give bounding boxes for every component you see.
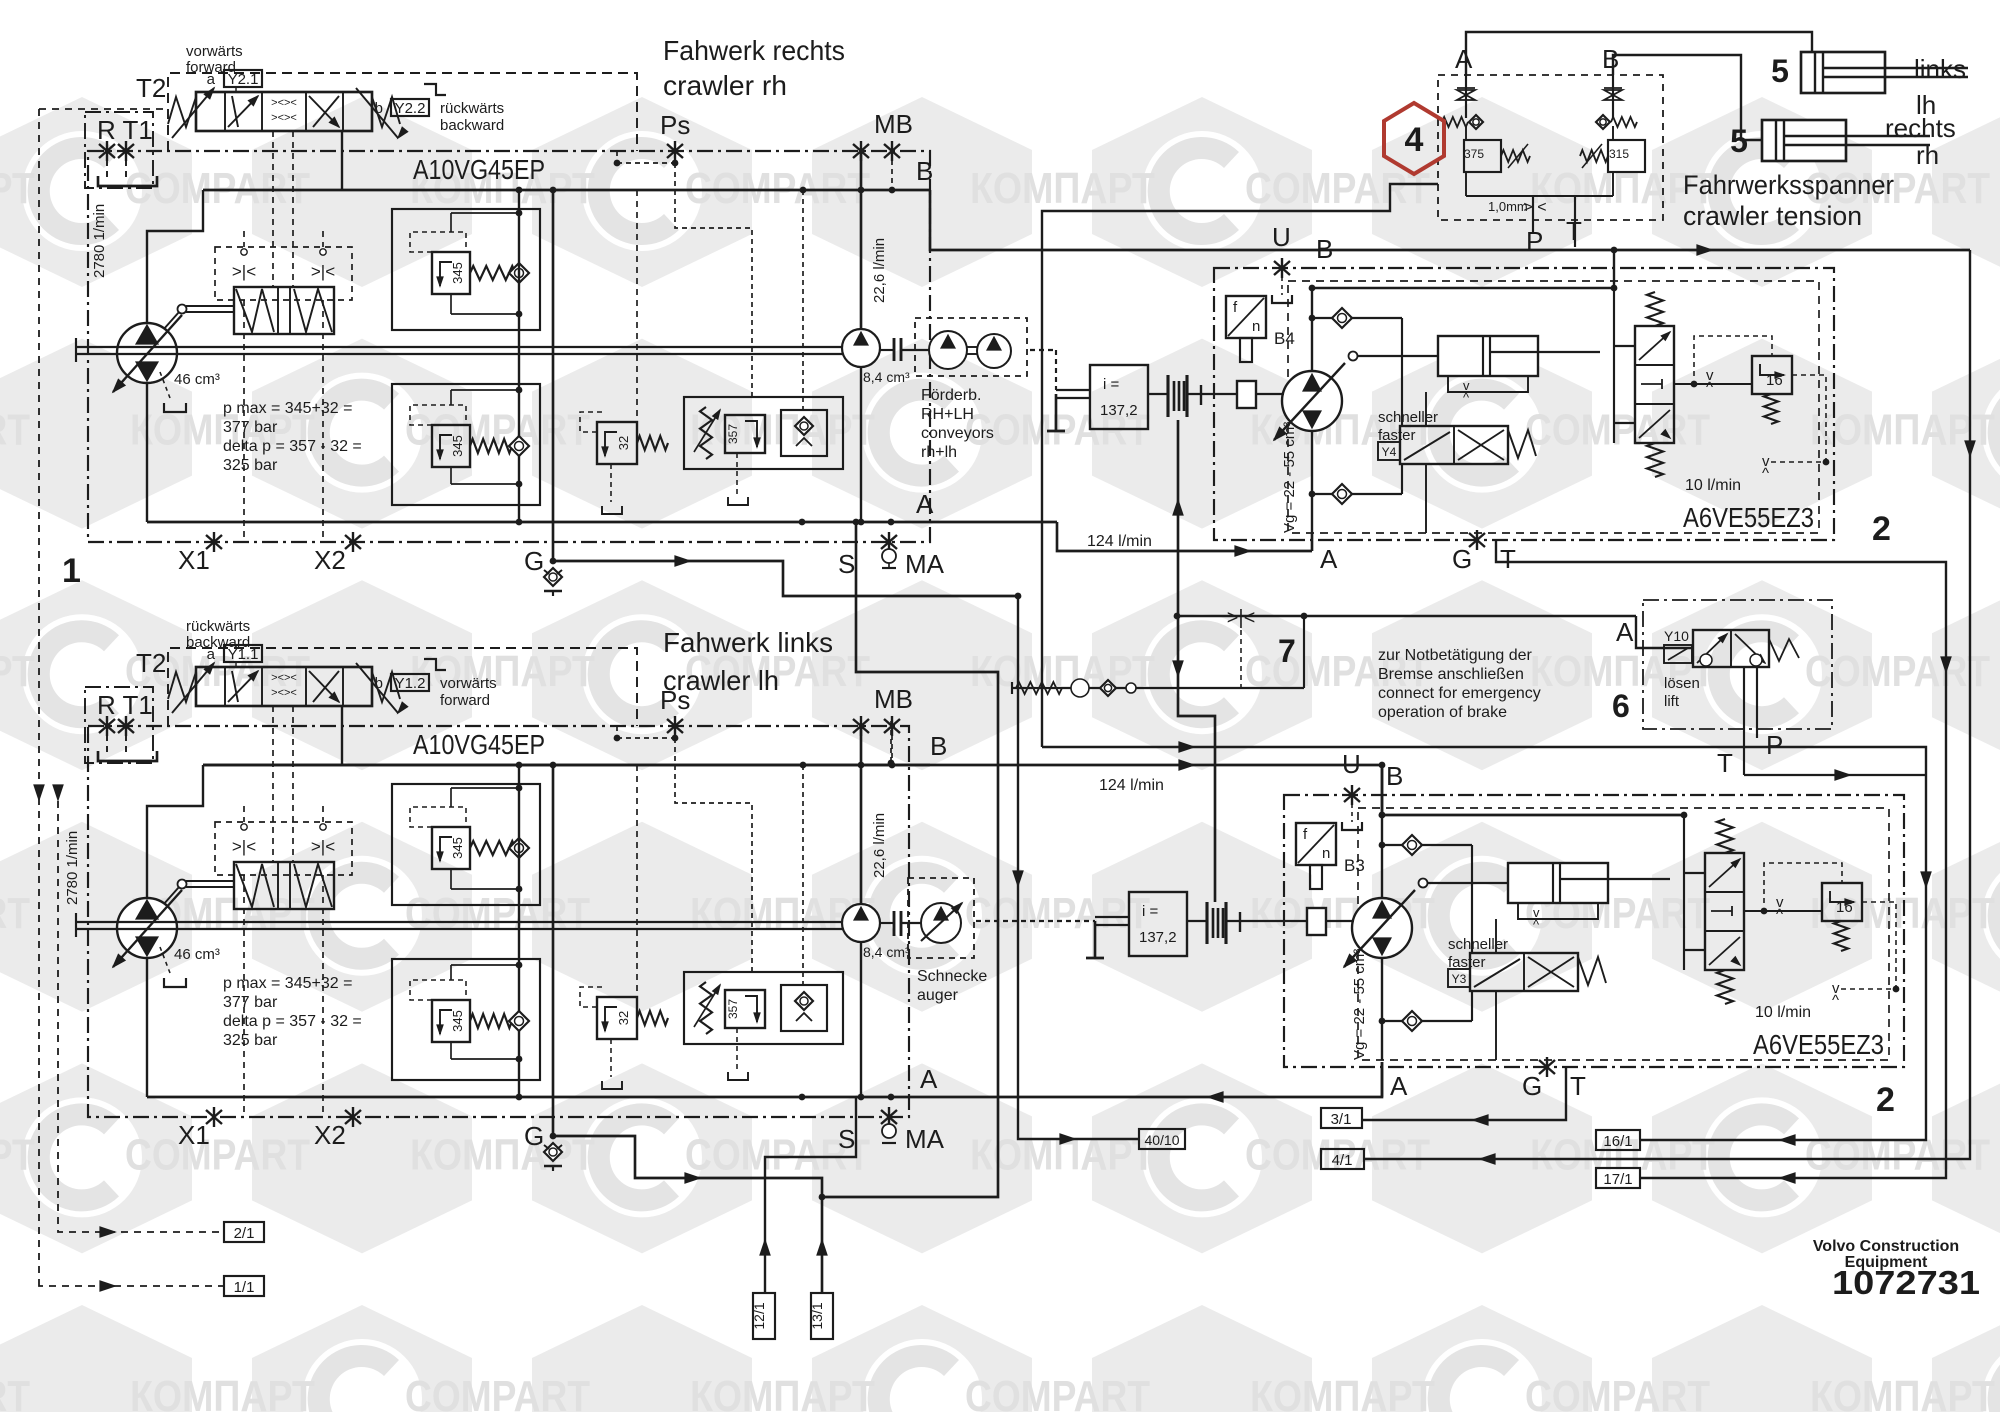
svg-text:137,2: 137,2 <box>1100 402 1138 419</box>
wire A work line <box>147 1096 1057 1099</box>
wire B feed <box>1613 55 1762 140</box>
pressure cutoff 357 block box <box>684 397 843 469</box>
svg-text:rückwärts: rückwärts <box>440 100 504 117</box>
wire charge pump to B <box>860 151 863 329</box>
relief 357 cartridge <box>725 415 765 453</box>
svg-text:2/1: 2/1 <box>234 1225 255 1242</box>
svg-text:S: S <box>838 1124 855 1154</box>
connector 12/1 <box>753 1293 775 1339</box>
swash plate link <box>178 880 187 889</box>
spring below 16 <box>1834 921 1848 951</box>
connector 16/1 <box>1596 1130 1640 1150</box>
svg-text:КОМПАРТ: КОМПАРТ <box>130 1372 315 1412</box>
svg-text:COMPART: COMPART <box>0 406 30 455</box>
node pilot b <box>320 824 326 830</box>
wire MB2 dashed drop <box>890 721 892 763</box>
wire branch 375 bottom <box>1465 172 1467 196</box>
svg-text:MB: MB <box>874 684 913 714</box>
stroking cylinder <box>1438 336 1538 376</box>
wire B2 to motor 2 <box>930 765 1382 815</box>
svg-text:КОМПАРТ: КОМПАРТ <box>0 164 35 213</box>
wire motor B port line <box>1311 288 1313 371</box>
boundary A6VE55 motor unit dash-dot box <box>1214 268 1834 540</box>
pilot wire b <box>322 231 324 247</box>
valve Y10 2/2 <box>1693 630 1769 667</box>
wire 16/1 riser <box>1042 747 1926 1140</box>
wire charge pump to B <box>860 726 863 904</box>
spring of relief 345 low <box>470 1014 512 1028</box>
pilot dashed wires from Ps <box>674 726 676 738</box>
pilot dashed X1 X2 wires <box>243 875 245 1117</box>
wire T2 dashed long left <box>38 109 40 1283</box>
check valve lower <box>1312 493 1402 495</box>
wire motor B port line <box>1381 815 1383 898</box>
shutoff valve branch 315 <box>1612 75 1614 118</box>
wire 16 dashed pilots <box>1764 863 1842 903</box>
svg-text:T: T <box>1570 1071 1586 1101</box>
orifice 1,0mm <box>1466 195 1613 197</box>
sensor f/n <box>1296 823 1336 865</box>
svg-text:^: ^ <box>1706 379 1713 396</box>
wire brake pilot line <box>1174 613 1181 620</box>
boundary A10VG45EP unit dash-dot box <box>88 726 909 1117</box>
cylinder crawler right <box>1762 120 1846 161</box>
svg-text:lösen: lösen <box>1664 675 1700 692</box>
boundary pilot module dashed box <box>215 822 352 875</box>
wire motor1 A up <box>1311 533 1314 551</box>
wire branch 315 bottom <box>1612 172 1614 196</box>
drain of relief 32 <box>610 1039 612 1077</box>
wire G2 to 13/1 <box>553 1136 822 1293</box>
svg-text:6: 6 <box>1612 688 1630 724</box>
svg-text:345: 345 <box>450 837 465 859</box>
spring of relief 345 <box>470 266 522 280</box>
svg-text:B: B <box>1316 234 1333 264</box>
wire R/T1 drains to tank bracket <box>106 160 108 178</box>
wire valve to B line <box>341 131 343 190</box>
wire pilot line bottom <box>1496 1036 1896 1038</box>
boundary item 6 dashed box <box>1643 600 1832 729</box>
svg-text:Vg = 22 - 55 cm³: Vg = 22 - 55 cm³ <box>1351 949 1368 1060</box>
svg-text:COMPART: COMPART <box>965 889 1150 938</box>
wire motor2 T to 3/1 <box>1362 1067 1566 1120</box>
svg-text:357: 357 <box>726 999 740 1019</box>
check with spring branch 375 <box>1442 117 1468 127</box>
measuring port T1 <box>125 716 127 736</box>
svg-text:5: 5 <box>1730 123 1748 159</box>
svg-text:COMPART: COMPART <box>125 1130 310 1179</box>
tank hook at valve <box>424 659 446 670</box>
svg-text:lift: lift <box>1664 693 1680 710</box>
pilot dashed box 345 <box>410 807 466 827</box>
svg-text:2780 1/min: 2780 1/min <box>91 204 108 278</box>
shutoff valve branch 375 <box>1465 75 1467 118</box>
svg-text:links: links <box>1914 54 1966 84</box>
drain 357 <box>736 453 738 494</box>
svg-text:1072731: 1072731 <box>1832 1264 1980 1301</box>
pilot wire stroking b <box>292 706 294 862</box>
drive shaft <box>76 346 861 348</box>
svg-text:auger: auger <box>917 987 959 1004</box>
wire 124 l/min riser <box>1178 420 1215 902</box>
wire G line to right <box>553 561 1018 596</box>
svg-text:1/1: 1/1 <box>234 1279 255 1296</box>
svg-text:375: 375 <box>1464 147 1484 161</box>
connector 13/1 <box>811 1293 833 1339</box>
boundary RT1 dash-dot box <box>85 112 153 188</box>
svg-text:COMPART: COMPART <box>405 889 590 938</box>
svg-text:B: B <box>930 731 947 761</box>
svg-text:A: A <box>1390 1071 1408 1101</box>
case drain bracket <box>160 947 170 973</box>
shaft coupling <box>893 338 896 361</box>
svg-text:КОМПАРТ: КОМПАРТ <box>0 647 35 696</box>
svg-text:1,0mm: 1,0mm <box>1488 199 1528 214</box>
svg-text:X1: X1 <box>178 1120 210 1150</box>
relief valve 345 high pressure A-side group box <box>392 209 540 330</box>
svg-text:КОМПАРТ: КОМПАРТ <box>690 1372 875 1412</box>
svg-text:COMPART: COMPART <box>965 1372 1150 1412</box>
wire 32 pilot dashed <box>636 190 638 422</box>
wire Y valve verticals <box>1425 464 1427 533</box>
svg-text:4: 4 <box>1405 121 1424 159</box>
svg-text:2: 2 <box>1876 1081 1895 1119</box>
svg-text:conveyors: conveyors <box>921 425 994 442</box>
solenoid arrow left <box>172 88 214 138</box>
gearbox i = 137,2 <box>1090 365 1148 429</box>
wire 16 dashed pilots <box>1694 336 1772 376</box>
svg-text:i =: i = <box>1103 376 1120 393</box>
wire pilot line bottom <box>1426 509 1826 511</box>
shuttle check box <box>781 410 827 456</box>
spring of relief 32 <box>637 1011 668 1025</box>
spring of relief 345 <box>470 841 522 855</box>
svg-text:12/1: 12/1 <box>751 1302 767 1329</box>
svg-text:345: 345 <box>450 435 465 457</box>
relief valve 345 cartridge <box>432 827 470 869</box>
svg-text:КОМПАРТ: КОМПАРТ <box>1250 1372 1435 1412</box>
svg-text:i =: i = <box>1142 903 1159 920</box>
svg-text:A: A <box>920 1064 938 1094</box>
check with spring branch 315 <box>1596 115 1610 129</box>
svg-text:><><: ><>< <box>271 97 297 109</box>
pilot wire a <box>243 231 245 247</box>
svg-text:КОМПАРТ: КОМПАРТ <box>970 164 1155 213</box>
svg-text:Schnecke: Schnecke <box>917 968 987 985</box>
svg-text:n: n <box>1322 845 1330 862</box>
relief cartridge 375 <box>1464 140 1501 172</box>
spring of relief 345 low <box>470 439 512 453</box>
wire S2 drain to 12/1 <box>765 1097 856 1293</box>
wire P port <box>1532 196 1534 232</box>
svg-text:32: 32 <box>616 1011 631 1025</box>
svg-text:^: ^ <box>1762 465 1769 482</box>
svg-text:>|<: >|< <box>311 262 335 281</box>
pilot wire b <box>322 806 324 822</box>
svg-text:>|<: >|< <box>1227 607 1256 629</box>
svg-text:17/1: 17/1 <box>1603 1171 1632 1188</box>
wire S drain down <box>822 522 998 1197</box>
svg-text:b: b <box>375 675 383 692</box>
spring left of valve <box>168 672 196 702</box>
boundary A10VG45EP unit dash-dot box <box>88 151 930 542</box>
schnecke pump dashed box <box>908 878 974 958</box>
swash link rod <box>1419 879 1428 888</box>
pilot wire a <box>243 806 245 822</box>
boundary pilot valve group dashed box <box>168 73 637 151</box>
solenoid arrow right <box>356 663 398 713</box>
valve stroking cylinder with springs <box>234 862 334 909</box>
wire Y10 P T <box>1743 667 1745 775</box>
relief valve 345 high pressure A-side group box <box>392 784 540 905</box>
port X1 <box>213 532 215 552</box>
svg-text:B: B <box>1602 44 1619 74</box>
node pilot a <box>241 824 247 830</box>
valve stroking cylinder with springs <box>234 287 334 334</box>
svg-text:p max = 345+32 =: p max = 345+32 = <box>223 975 352 992</box>
svg-text:2780 1/min: 2780 1/min <box>64 831 81 905</box>
svg-text:A6VE55EZ3: A6VE55EZ3 <box>1683 502 1814 533</box>
svg-text:schneller: schneller <box>1378 409 1438 426</box>
svg-text:operation of brake: operation of brake <box>1378 704 1507 721</box>
svg-text:22,6 l/min: 22,6 l/min <box>871 238 888 303</box>
svg-text:357: 357 <box>726 424 740 444</box>
relief valve 345 cartridge low <box>432 1000 470 1042</box>
svg-text:faster: faster <box>1448 954 1486 971</box>
pump A10VG45 variable displacement <box>117 323 177 383</box>
svg-text:10 l/min: 10 l/min <box>1755 1004 1811 1021</box>
svg-text:Y4: Y4 <box>1382 445 1397 459</box>
wire pilot valve feed <box>1683 815 1685 970</box>
swash link rod <box>1349 352 1358 361</box>
wire tension supply from 16/1 riser <box>1042 184 1438 747</box>
svg-text:B: B <box>1386 761 1403 791</box>
spring right of valve <box>372 97 400 127</box>
wire 2/1 dashed <box>58 788 224 1232</box>
spring below pilot valve <box>1647 443 1663 477</box>
svg-text:7: 7 <box>1278 633 1296 669</box>
svg-text:COMPART: COMPART <box>1525 406 1710 455</box>
svg-text:COMPART: COMPART <box>1805 1130 1990 1179</box>
solenoid Y2.1 box <box>224 70 262 87</box>
check valve at G circuit 2 <box>544 1143 562 1161</box>
wire B2 into motor2 <box>1382 814 1684 816</box>
spring right Y10 <box>1769 639 1799 661</box>
port X2 <box>352 532 354 552</box>
check valve upper <box>1312 317 1402 319</box>
svg-text:Ps: Ps <box>660 110 690 140</box>
svg-text:46 cm³: 46 cm³ <box>174 371 220 388</box>
wire relief group vertical <box>518 190 520 522</box>
svg-text:137,2: 137,2 <box>1139 929 1177 946</box>
wire motor2 B drop <box>1381 765 1384 815</box>
svg-text:X1: X1 <box>178 545 210 575</box>
check valve lower <box>1382 1020 1472 1022</box>
svg-text:G: G <box>1522 1071 1542 1101</box>
check valve beside 345 low <box>509 1011 529 1031</box>
svg-text:Y10: Y10 <box>1664 628 1689 644</box>
spring below pilot valve <box>1717 970 1733 1004</box>
svg-text:>|<: >|< <box>311 837 335 856</box>
shaft coupling motor <box>1187 920 1206 922</box>
svg-text:Fahrwerksspanner: Fahrwerksspanner <box>1683 170 1894 200</box>
wire T tension <box>1574 196 1576 247</box>
svg-text:T: T <box>1566 216 1582 246</box>
boundary RT1 dash-dot box <box>85 687 153 763</box>
svg-text:P: P <box>1526 226 1543 256</box>
tank hook at valve <box>424 84 446 95</box>
svg-text:P: P <box>1766 730 1783 760</box>
svg-text:Bremse anschließen: Bremse anschließen <box>1378 666 1524 683</box>
measuring port R <box>106 141 108 161</box>
relief valve 32 charge pressure <box>597 997 637 1039</box>
svg-text:Vg = 22 - 55 cm³: Vg = 22 - 55 cm³ <box>1281 422 1298 533</box>
wire T return right edge outer <box>1364 250 1970 1159</box>
wire B to motor 1 <box>930 190 1970 250</box>
pilot dashed box 345 low <box>410 980 466 1000</box>
relief 16 brake shuttle <box>1822 883 1862 921</box>
wire relief group vertical <box>518 765 520 1097</box>
svg-text:MA: MA <box>905 1124 945 1154</box>
svg-text:345: 345 <box>450 1010 465 1032</box>
svg-text:5: 5 <box>1771 53 1789 89</box>
port MA circuit 1 <box>888 532 890 552</box>
svg-text:A: A <box>1616 617 1634 647</box>
wire pump bottom port to A line <box>146 958 148 1097</box>
svg-text:COMPART: COMPART <box>1525 1372 1710 1412</box>
shuttle check box <box>781 985 827 1031</box>
connector 3/1 <box>1321 1108 1362 1128</box>
wire motor1 B drop <box>1613 250 1615 288</box>
svg-text:crawler tension: crawler tension <box>1683 201 1862 231</box>
svg-text:КОМПАРТ: КОМПАРТ <box>0 1130 35 1179</box>
svg-text:2: 2 <box>1872 510 1891 548</box>
port X1 <box>213 1107 215 1127</box>
svg-text:325 bar: 325 bar <box>223 1032 278 1049</box>
svg-text:><><: ><>< <box>271 672 297 684</box>
svg-text:X2: X2 <box>314 1120 346 1150</box>
svg-text:КОМПАРТ: КОМПАРТ <box>1810 1372 1995 1412</box>
arrows on left risers <box>34 785 44 800</box>
pilot wire stroking a <box>272 706 274 862</box>
svg-text:16: 16 <box>1836 899 1853 916</box>
boundary crawler tension dashed box <box>1438 75 1663 220</box>
svg-text:COMPART: COMPART <box>0 1372 30 1412</box>
svg-text:U: U <box>1272 222 1291 252</box>
svg-text:> <: > < <box>1523 199 1546 216</box>
svg-text:A10VG45EP: A10VG45EP <box>413 154 545 185</box>
check valve beside 345 <box>509 838 529 858</box>
pump A10VG45 variable displacement <box>117 898 177 958</box>
junction dots on A line <box>799 519 806 526</box>
svg-text:RH+LH: RH+LH <box>921 406 974 423</box>
conveyor pump lh <box>977 334 1011 368</box>
pilot dashed wires from Ps <box>674 151 676 163</box>
svg-text:backward: backward <box>440 117 504 134</box>
solenoid Y3 label box <box>1448 969 1470 987</box>
wire A work line <box>147 521 1057 524</box>
solenoid Y4 label box <box>1378 442 1400 460</box>
port MA circuit 2 <box>888 1107 890 1127</box>
svg-text:Y2.2: Y2.2 <box>395 100 426 117</box>
svg-text:b: b <box>375 100 383 117</box>
svg-text:22,6 l/min: 22,6 l/min <box>871 813 888 878</box>
svg-text:10 l/min: 10 l/min <box>1685 477 1741 494</box>
svg-text:B4: B4 <box>1274 329 1295 348</box>
check valve beside 345 <box>509 263 529 283</box>
svg-text:13/1: 13/1 <box>809 1302 825 1329</box>
svg-text:forward: forward <box>186 59 236 76</box>
svg-text:B: B <box>916 156 933 186</box>
svg-text:^: ^ <box>1463 390 1470 405</box>
svg-text:T: T <box>1717 748 1733 778</box>
svg-text:A: A <box>1455 44 1473 74</box>
connector 1/1 <box>224 1276 264 1296</box>
wire 40/10 riser <box>1018 596 1139 1139</box>
adjustable spring symbol 357 <box>700 982 712 1034</box>
wire 32 pilot dashed <box>636 765 638 997</box>
drive shaft <box>76 921 861 923</box>
boundary inner dashed box motor <box>1288 281 1819 533</box>
wire B2 line <box>1179 760 1194 770</box>
wire B2 work line full <box>203 764 1382 767</box>
relief valve 345 cartridge low <box>432 425 470 467</box>
charge pump 8.4cm3 <box>842 904 880 942</box>
connector 17/1 <box>1596 1168 1640 1188</box>
svg-text:32: 32 <box>616 436 631 450</box>
svg-text:16: 16 <box>1766 372 1783 389</box>
svg-text:faster: faster <box>1378 427 1416 444</box>
svg-text:schneller: schneller <box>1448 936 1508 953</box>
spring right of valve <box>372 672 400 702</box>
svg-text:>|<: >|< <box>232 837 256 856</box>
wire valve to B line <box>341 706 343 765</box>
svg-text:Förderb.: Förderb. <box>921 387 981 404</box>
connector 40/10 <box>1139 1129 1185 1149</box>
svg-text:T2: T2 <box>136 648 166 678</box>
wire motor2 A up <box>1381 1062 1384 1097</box>
svg-text:rechts: rechts <box>1885 113 1956 143</box>
wire pump top port to B line <box>147 190 203 323</box>
svg-text:COMPART: COMPART <box>405 1372 590 1412</box>
wire emergency check line <box>1012 687 1304 689</box>
svg-text:КОМПАРТ: КОМПАРТ <box>410 647 595 696</box>
svg-text:A6VE55EZ3: A6VE55EZ3 <box>1753 1029 1884 1060</box>
stroking cylinder <box>1508 863 1608 903</box>
case drain bracket <box>160 372 170 398</box>
svg-text:Volvo Construction: Volvo Construction <box>1813 1238 1959 1255</box>
relief valve 32 charge pressure <box>597 422 637 464</box>
boundary pilot module dashed box <box>215 247 352 300</box>
wire B work line <box>203 764 930 767</box>
relief valve 345 low group box <box>392 384 540 505</box>
pilot control valve 3-cell <box>1705 853 1744 970</box>
valve Y4 2/2 solenoid <box>1400 426 1508 464</box>
svg-text:rückwärts: rückwärts <box>186 618 250 635</box>
pilot dashed box 345 low <box>410 405 466 425</box>
svg-text:КОМПАРТ: КОМПАРТ <box>410 1130 595 1179</box>
spring above pilot valve <box>1717 819 1733 853</box>
svg-text:COMPART: COMPART <box>1245 164 1430 213</box>
motor A6VE55 variable <box>1352 898 1412 958</box>
svg-text:Fahwerk links: Fahwerk links <box>663 627 833 658</box>
relief 16 brake shuttle <box>1752 356 1792 394</box>
drain of relief 32 <box>610 464 612 502</box>
svg-text:T2: T2 <box>136 73 166 103</box>
svg-text:377 bar: 377 bar <box>223 994 278 1011</box>
pilot wire stroking b <box>292 131 294 287</box>
wire Y valve verticals <box>1495 991 1497 1060</box>
